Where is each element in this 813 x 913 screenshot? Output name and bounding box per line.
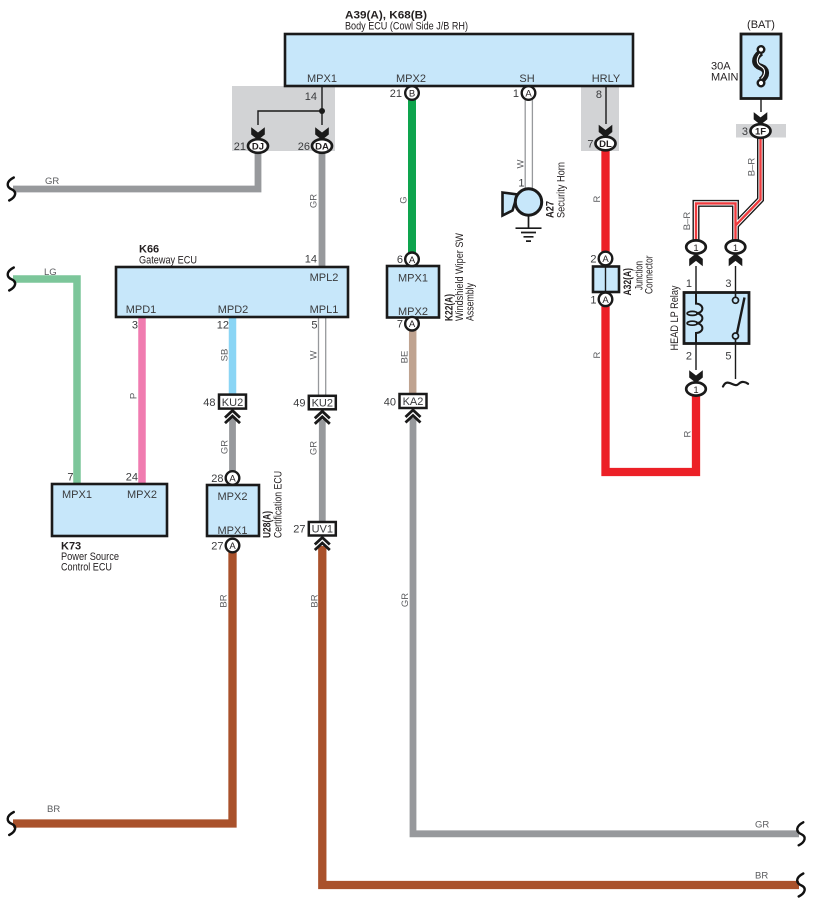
HEAD LP relay box (669, 285, 749, 350)
svg-text:Certification ECU: Certification ECU (273, 471, 285, 538)
svg-text:GR: GR (220, 440, 231, 454)
connector oval 1 above relay pin 1 (686, 240, 706, 253)
wire W from body ECU SH to horn (516, 99, 533, 190)
svg-text:27: 27 (293, 524, 305, 536)
wire R from A32 pin1 down, right and up to relay connector (592, 306, 696, 472)
connector box 27 UV1 (293, 522, 336, 536)
connector oval 1F pin 3 (742, 124, 771, 138)
svg-text:SH: SH (519, 73, 534, 85)
break symbol left LG (8, 268, 15, 291)
svg-text:3: 3 (725, 278, 731, 290)
relay pin 5 wire and number (725, 344, 735, 380)
svg-text:A: A (409, 255, 416, 266)
pin 7 circle A on K22 MPX2 (397, 317, 419, 331)
relay coil (687, 293, 702, 344)
break symbol left BR (8, 812, 15, 835)
wire R from DL to junction A32 (592, 150, 606, 252)
svg-text:MPX1: MPX1 (307, 73, 337, 85)
wire black from body ECU HRLY pin 8 (596, 86, 606, 124)
gray shield strip around 1F connector (736, 124, 786, 138)
ground symbol below horn (516, 215, 542, 241)
svg-text:B–R: B–R (747, 158, 758, 177)
svg-text:1F: 1F (755, 127, 766, 138)
pin 28 circle A on U28 MPX2 (211, 471, 239, 485)
svg-text:24: 24 (126, 472, 138, 484)
svg-text:MPX1: MPX1 (398, 273, 428, 285)
svg-text:A: A (602, 295, 609, 306)
arrow into DL (599, 125, 613, 138)
svg-text:A: A (229, 541, 236, 552)
svg-text:14: 14 (305, 91, 317, 103)
wire W from gateway MPL1 to connector 49 KU2 (309, 317, 326, 396)
svg-text:5: 5 (725, 351, 731, 363)
svg-text:2: 2 (590, 254, 596, 266)
svg-text:W: W (309, 350, 320, 359)
connector oval DA pin 26 (298, 139, 332, 153)
svg-text:(BAT): (BAT) (747, 19, 775, 31)
svg-text:KA2: KA2 (403, 396, 424, 408)
break symbol right GR (797, 822, 804, 845)
svg-text:KU2: KU2 (312, 398, 333, 410)
wire BE from K22 pin 7 to connector 40 KA2 (400, 331, 413, 395)
double chevron below 27 UV1 (315, 538, 330, 551)
arrow into DJ (251, 127, 265, 140)
svg-text:R: R (683, 430, 694, 437)
svg-text:1: 1 (693, 243, 698, 254)
wire LG from left edge break to K73 MPX1 (13, 267, 77, 484)
pin 21 circle B on MPX2 (390, 86, 419, 100)
wire GR from 40 KA2 chevron down to right edge break (400, 418, 799, 834)
continuation squiggle below relay pin 5 (723, 382, 748, 387)
svg-text:GR: GR (309, 441, 320, 455)
relay pin 1 wire and number (686, 266, 696, 293)
double chevron below 49 KU2 (315, 411, 330, 424)
svg-text:2: 2 (686, 351, 692, 363)
junction connector A32(A) (590, 252, 655, 307)
connector box 48 KU2 (203, 395, 246, 409)
svg-text:3: 3 (742, 126, 748, 138)
svg-text:A: A (525, 89, 532, 100)
wire G from body ECU MPX2 to K22 MPX1 (399, 99, 413, 253)
svg-text:7: 7 (67, 472, 73, 484)
svg-text:GR: GR (755, 820, 769, 831)
arrow into 1F (754, 112, 768, 125)
svg-text:MPD1: MPD1 (126, 304, 157, 316)
svg-text:3: 3 (132, 320, 138, 332)
svg-text:LG: LG (44, 267, 57, 278)
arrow up into relay oval 1 right (729, 253, 743, 266)
arrow down into oval 1 below relay (689, 370, 703, 383)
wire from fuse box down to 1F (760, 99, 762, 113)
svg-text:SB: SB (220, 349, 231, 362)
K73 power source control ECU box (52, 472, 167, 574)
svg-text:26: 26 (298, 141, 310, 153)
relay pin 2 wire and number (686, 344, 696, 371)
svg-text:A32(A): A32(A) (622, 268, 634, 296)
svg-text:48: 48 (203, 397, 215, 409)
svg-text:GR: GR (45, 176, 59, 187)
svg-text:BR: BR (219, 594, 230, 607)
svg-text:21: 21 (390, 88, 402, 100)
wire GR from DA to gateway MPL2 (309, 150, 323, 267)
svg-text:BR: BR (47, 804, 60, 815)
wire GR from DJ to left edge break (13, 150, 258, 189)
svg-text:GR: GR (309, 194, 320, 208)
svg-text:DL: DL (599, 139, 612, 150)
svg-text:DJ: DJ (252, 142, 264, 153)
svg-text:Assembly: Assembly (465, 283, 477, 321)
svg-text:R: R (592, 351, 603, 358)
svg-text:MPX2: MPX2 (218, 491, 248, 503)
svg-text:1: 1 (518, 178, 524, 190)
svg-text:Connector: Connector (644, 255, 656, 294)
battery fuse 30A MAIN box (711, 19, 781, 99)
svg-text:27: 27 (211, 541, 223, 553)
svg-text:1: 1 (513, 88, 519, 100)
pin 6 circle A on K22 MPX1 (397, 252, 419, 266)
svg-text:BE: BE (400, 351, 411, 364)
svg-text:A: A (229, 474, 236, 485)
svg-text:Security Horn: Security Horn (556, 162, 568, 218)
svg-text:MPD2: MPD2 (218, 304, 249, 316)
svg-text:8: 8 (596, 89, 602, 101)
svg-text:MPX2: MPX2 (396, 73, 426, 85)
double chevron below 40 KA2 (406, 410, 421, 423)
body ECU A39(A) K68(B) box (285, 10, 633, 87)
svg-text:Gateway ECU: Gateway ECU (139, 255, 197, 267)
relay pin 3 wire and number (725, 266, 735, 293)
svg-text:B–R: B–R (682, 212, 693, 231)
svg-text:MPX1: MPX1 (218, 525, 248, 537)
fusible link symbol (755, 46, 765, 86)
svg-text:A: A (409, 319, 416, 330)
svg-text:12: 12 (217, 320, 229, 332)
svg-text:BR: BR (755, 871, 768, 882)
gray shield box around DL connector (581, 86, 619, 151)
relay switch (733, 293, 745, 344)
arrow into DA (315, 127, 329, 140)
connector oval 1 above relay pin 3 (726, 240, 746, 253)
svg-text:MAIN: MAIN (711, 72, 739, 84)
wire B-R from 1F down with diagonal to relay ovals (682, 138, 761, 241)
double chevron below 48 KU2 (225, 411, 240, 424)
connector box 49 KU2 (293, 396, 336, 410)
wire GR from 48 KU2 chevron to U28 pin 28 (220, 418, 233, 472)
svg-text:R: R (592, 195, 603, 202)
svg-text:28: 28 (211, 473, 223, 485)
wire P from gateway MPD1 to K73 MPX2 (129, 317, 143, 484)
svg-text:BR: BR (310, 594, 321, 607)
svg-text:MPL1: MPL1 (310, 304, 339, 316)
svg-text:W: W (516, 159, 527, 168)
break symbol left GR (8, 178, 15, 201)
svg-text:1: 1 (733, 243, 738, 254)
arrow up into relay oval 1 left (689, 253, 703, 266)
svg-text:21: 21 (234, 141, 246, 153)
pin 27 circle A on U28 MPX1 (211, 539, 239, 553)
svg-text:Control ECU: Control ECU (61, 562, 112, 574)
gray shield box around DJ/DA connectors (232, 86, 335, 151)
svg-text:40: 40 (384, 396, 396, 408)
wire black from body ECU MPX1 pin 14 with junction (258, 86, 325, 125)
svg-text:B: B (409, 89, 415, 100)
svg-text:1: 1 (686, 278, 692, 290)
svg-text:G: G (399, 196, 410, 203)
wire SB from gateway MPD2 to connector 48 KU2 (220, 317, 233, 396)
connector oval DJ pin 21 (234, 139, 268, 153)
connector oval DL pin 7 (587, 137, 615, 151)
svg-text:DA: DA (315, 142, 329, 153)
svg-text:A: A (602, 254, 609, 265)
svg-text:P: P (129, 393, 140, 399)
svg-text:GR: GR (400, 593, 411, 607)
svg-text:7: 7 (587, 139, 593, 151)
wire BR from UV1 chevron down to right edge break (310, 546, 800, 885)
svg-text:5: 5 (311, 320, 317, 332)
wire GR from 49 KU2 chevron to connector 27 UV1 (309, 420, 323, 523)
K22 windshield wiper SW assembly box (387, 232, 477, 321)
svg-text:KU2: KU2 (222, 397, 243, 409)
security horn A27 (503, 162, 568, 218)
break symbol right BR (797, 874, 804, 897)
svg-text:Body ECU (Cowl Side J/B RH): Body ECU (Cowl Side J/B RH) (345, 21, 468, 33)
connector oval 1 below relay pin 2 (686, 382, 706, 395)
svg-text:UV1: UV1 (312, 524, 333, 536)
svg-text:HRLY: HRLY (592, 73, 621, 85)
svg-text:14: 14 (305, 254, 317, 266)
svg-text:MPX1: MPX1 (62, 489, 92, 501)
svg-text:MPL2: MPL2 (310, 272, 339, 284)
svg-text:6: 6 (397, 254, 403, 266)
svg-text:HEAD LP Relay: HEAD LP Relay (669, 285, 681, 350)
gateway ECU K66 box (116, 244, 348, 332)
svg-text:1: 1 (693, 385, 698, 396)
wire BR from U28 pin 27 down to left edge break (13, 552, 233, 824)
svg-text:7: 7 (397, 319, 403, 331)
svg-text:MPX2: MPX2 (127, 489, 157, 501)
connector box 40 KA2 (384, 394, 427, 408)
svg-text:1: 1 (590, 294, 596, 306)
svg-text:49: 49 (293, 398, 305, 410)
pin 1 circle A on SH (513, 86, 535, 100)
U28 certification ECU box (207, 471, 285, 538)
